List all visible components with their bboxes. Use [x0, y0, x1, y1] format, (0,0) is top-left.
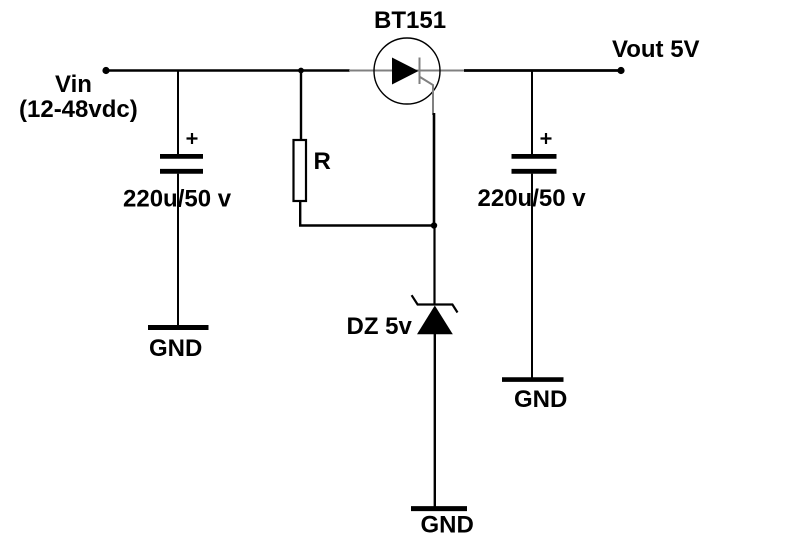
capacitor C2: bottom plate [512, 169, 557, 174]
thyristor U1: anode triangle [392, 58, 419, 85]
node: gate/zener junction dot [431, 222, 437, 228]
wire: junction to resistor bottom [299, 224, 434, 227]
node: Vin terminal dot [102, 67, 109, 74]
node: resistor junction on top rail [298, 68, 304, 74]
ground: C2 ground bar [502, 377, 564, 382]
thyristor U1: gate lead (gray) [420, 77, 433, 115]
ground: C1 ground bar [148, 325, 209, 330]
svg-text:DZ 5v: DZ 5v [347, 313, 413, 340]
wire: resistor top lead [300, 71, 302, 141]
svg-text:Vout 5V: Vout 5V [612, 36, 700, 63]
node: Vout terminal dot [617, 67, 624, 74]
svg-text:220u/50 v: 220u/50 v [123, 186, 232, 213]
wire: resistor bottom lead [299, 202, 301, 227]
svg-text:220u/50 v: 220u/50 v [478, 185, 587, 212]
capacitor C1: bottom plate [160, 169, 203, 174]
capacitor C1: top lead [177, 71, 179, 156]
wire: gray rail segment through SCR [349, 70, 465, 72]
capacitor C2: top lead [531, 71, 533, 156]
zener DZ: cathode bar with bent ends [412, 295, 458, 312]
capacitor C1: top plate [160, 154, 203, 159]
resistor R: body [294, 140, 307, 201]
svg-text:GND: GND [149, 335, 202, 362]
wire: top rail from SCR cathode to Vout terminal [464, 69, 621, 72]
capacitor C2: bottom lead [531, 174, 533, 378]
wire: gate down to junction (black) [433, 113, 436, 226]
wire: top rail from Vin terminal to SCR anode [106, 69, 350, 72]
zener DZ: top lead [433, 226, 435, 304]
zener DZ: anode triangle [417, 306, 453, 335]
thyristor U1: cathode bar [419, 58, 421, 85]
svg-text:BT151: BT151 [374, 7, 446, 34]
svg-text:GND: GND [421, 512, 474, 539]
capacitor C1: plus sign [187, 133, 198, 144]
capacitor C1: bottom lead [177, 174, 179, 326]
capacitor C2: top plate [512, 154, 557, 159]
capacitor C2: plus sign [541, 133, 552, 144]
svg-text:Vin: Vin [55, 71, 92, 98]
zener DZ: bottom lead [434, 334, 436, 507]
thyristor U1 BT151: body circle [374, 38, 440, 104]
svg-text:R: R [314, 148, 331, 175]
svg-text:(12-48vdc): (12-48vdc) [19, 96, 138, 123]
svg-text:GND: GND [514, 386, 567, 413]
ground: zener ground bar [411, 506, 467, 511]
